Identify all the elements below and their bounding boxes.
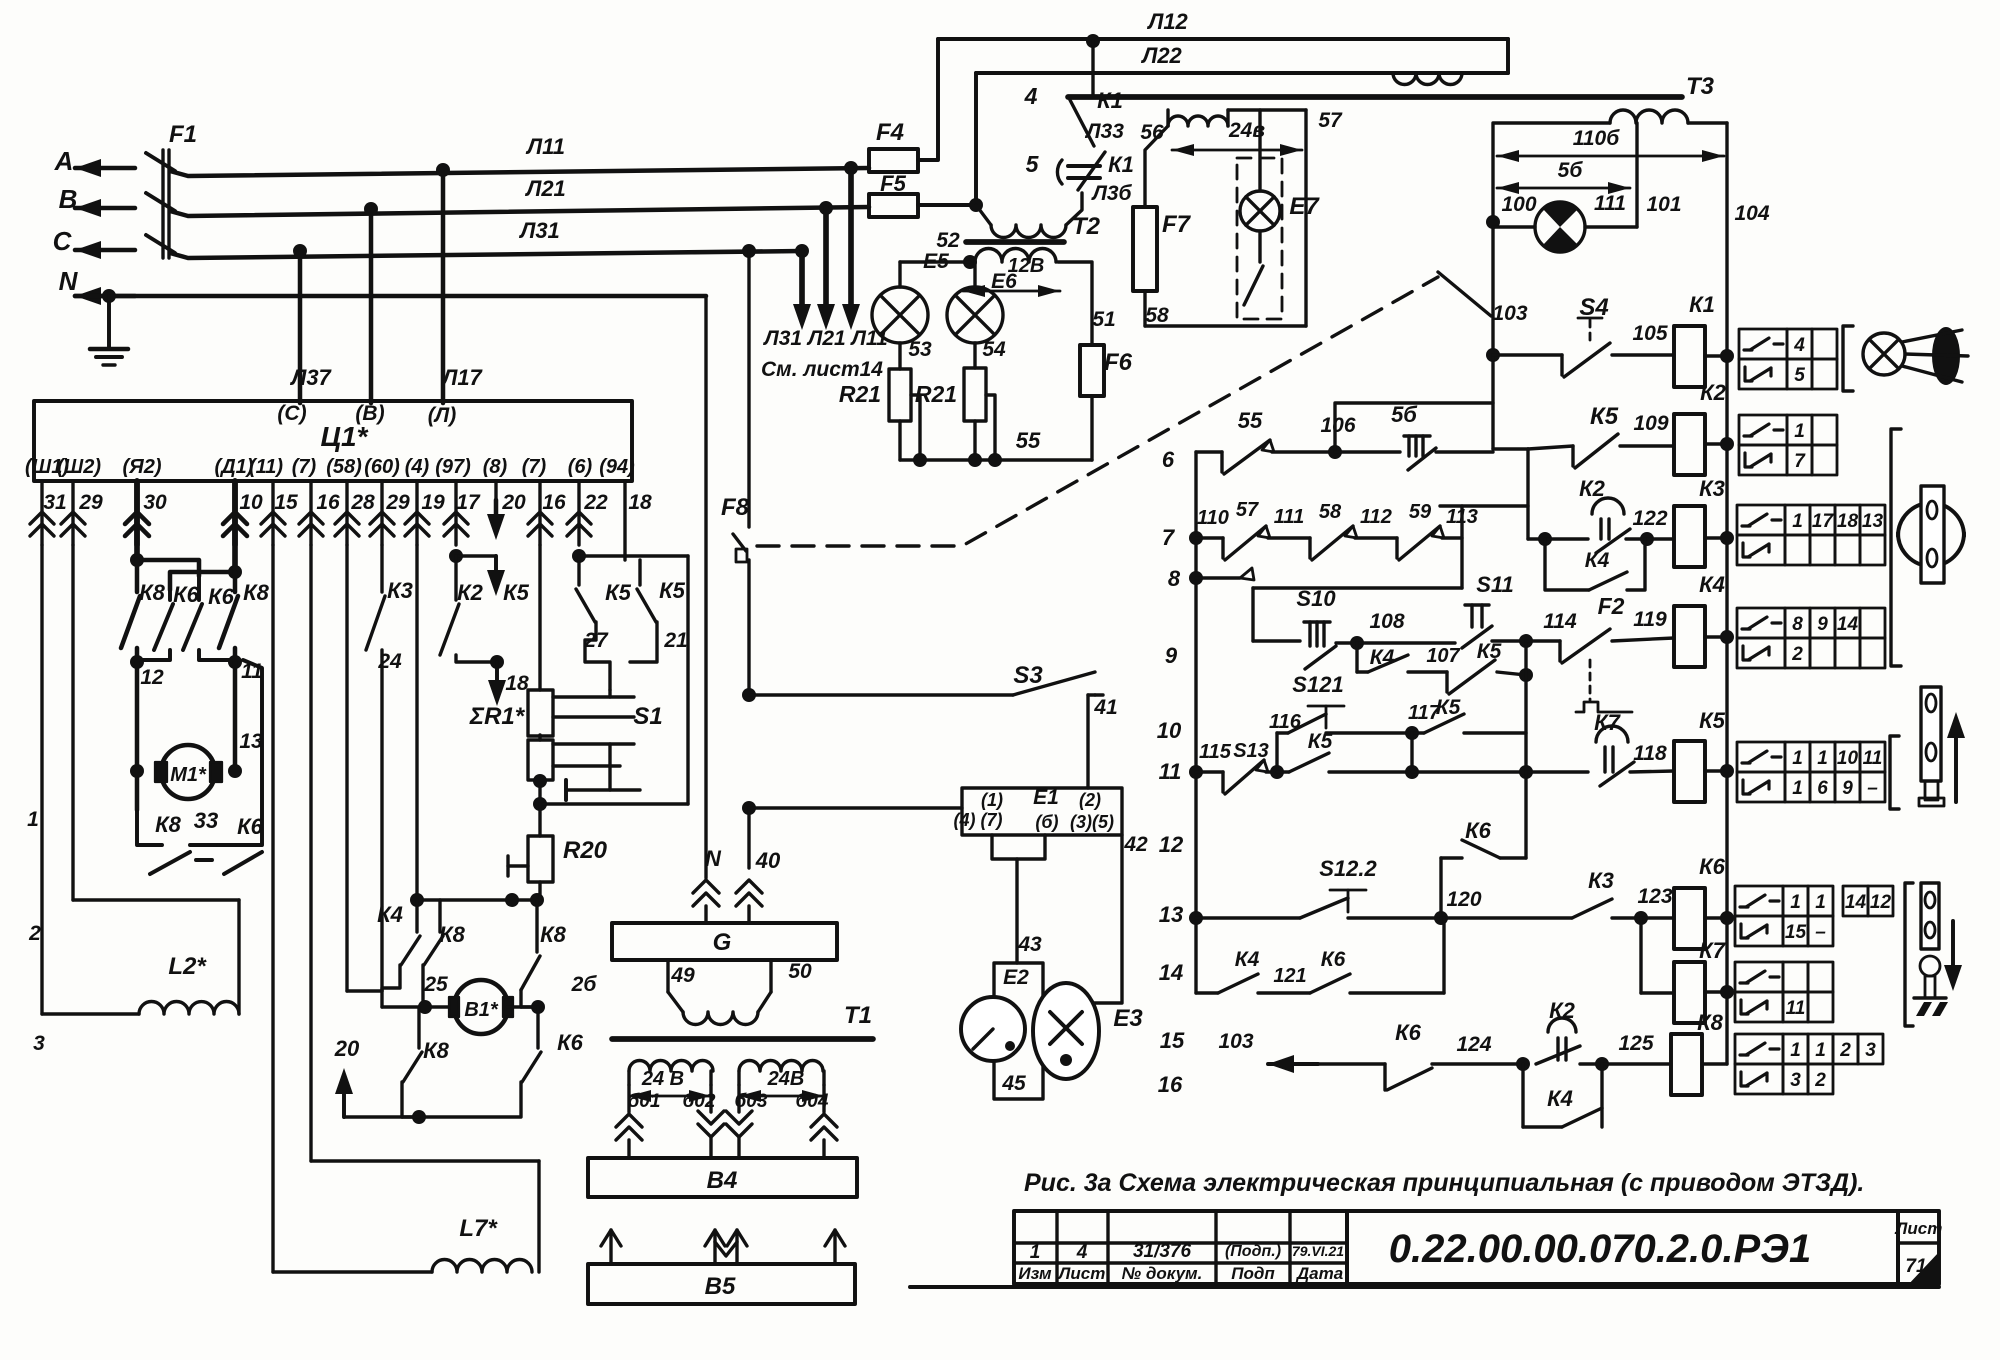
svg-text:53: 53 [908, 338, 932, 361]
wire L31 [170, 251, 802, 258]
svg-text:10: 10 [1157, 718, 1182, 743]
svg-text:1: 1 [1030, 1242, 1041, 1263]
wire F8 vertical from L31 [742, 244, 756, 258]
svg-text:S3: S3 [1013, 662, 1043, 689]
svg-text:105: 105 [1632, 322, 1667, 345]
svg-text:2: 2 [1839, 1040, 1851, 1061]
motor bottom loop with contacts K8 33 K6 [137, 810, 162, 845]
svg-text:М1*: М1* [170, 764, 207, 786]
resistor block SR1* lower [528, 740, 553, 780]
lever icon with up arrow [1921, 687, 1941, 781]
lamp head icon [1920, 956, 1940, 976]
svg-text:16: 16 [1158, 1072, 1183, 1097]
svg-text:8: 8 [1792, 614, 1803, 635]
svg-text:S1: S1 [633, 703, 662, 730]
svg-text:Дата: Дата [1295, 1264, 1343, 1283]
contact table K2 [1739, 415, 1787, 445]
svg-text:21: 21 [663, 629, 687, 652]
T3 secondary 110v winding [1610, 110, 1688, 123]
wire below SR1 [538, 735, 541, 740]
resistor R20 [528, 836, 553, 882]
svg-text:A: A [54, 146, 74, 176]
contact 5b thermal [1404, 434, 1430, 437]
row F2 K4coil [1526, 639, 1560, 642]
fuse F6 [1080, 345, 1104, 396]
node 124 [1516, 1057, 1530, 1071]
svg-text:(С): (С) [277, 402, 306, 425]
svg-text:1: 1 [1792, 778, 1803, 799]
svg-text:К7: К7 [1594, 710, 1622, 735]
svg-text:Л33: Л33 [1084, 120, 1124, 143]
svg-text:(1): (1) [981, 790, 1003, 810]
node 12 [130, 655, 144, 669]
contact K8 motor 1 [135, 560, 140, 592]
svg-text:1: 1 [1815, 1040, 1826, 1061]
contact 59 [1395, 538, 1398, 558]
connector E1 box [962, 788, 1122, 835]
wire 42 from E1 right [1094, 835, 1122, 1003]
contact table K1 [1739, 329, 1787, 359]
svg-text:107: 107 [1426, 645, 1460, 667]
svg-text:7: 7 [1794, 451, 1806, 472]
svg-text:(94): (94) [599, 456, 635, 478]
node row y900 [417, 898, 540, 901]
node 52 [963, 255, 977, 269]
row15 arrow left [1268, 1062, 1318, 1066]
svg-text:Л31: Л31 [518, 218, 560, 243]
svg-text:5б: 5б [1391, 402, 1418, 427]
svg-text:См. лист14: См. лист14 [761, 358, 883, 381]
branch to K5 arrow [456, 554, 496, 557]
svg-text:25: 25 [423, 973, 448, 996]
svg-text:B: B [59, 184, 78, 214]
svg-text:К5: К5 [1308, 730, 1333, 753]
pin wire 29 at x=73 [71, 481, 74, 545]
svg-text:К6: К6 [1321, 948, 1346, 971]
contact table K3 [1737, 505, 1785, 535]
resistor R21 first [898, 343, 901, 369]
contact K5b [623, 557, 626, 560]
pin wire 29 at x=382 [380, 481, 383, 545]
resistor block SR1* upper [528, 690, 553, 736]
relay coil K7 [1674, 962, 1705, 1023]
svg-text:Е7: Е7 [1289, 193, 1320, 220]
svg-text:F2: F2 [1598, 593, 1625, 619]
svg-text:К6: К6 [1699, 854, 1726, 879]
bold arrow L21 to sheet 14 [819, 201, 833, 215]
svg-text:К1: К1 [1108, 152, 1134, 177]
contact K6 below B1 right [536, 1007, 539, 1048]
svg-text:К4: К4 [1235, 948, 1260, 971]
contact K8 right of B1 [535, 900, 538, 952]
ground symbol [107, 296, 111, 349]
wire pin16 down to L7 [309, 545, 312, 1161]
transformer T2 primary [976, 205, 991, 225]
wire to S3 [749, 693, 1013, 696]
contact K3 row13 [1441, 916, 1572, 919]
contact K6 row14 [1310, 974, 1350, 993]
row8 from rail [1189, 571, 1203, 585]
svg-text:15: 15 [1160, 1028, 1185, 1053]
ladder left rail [1194, 452, 1197, 993]
svg-text:К6: К6 [173, 582, 200, 607]
svg-text:К3: К3 [1699, 476, 1725, 501]
wire 41 vertical [1086, 695, 1089, 788]
svg-text:1: 1 [1794, 421, 1805, 442]
svg-text:К5: К5 [659, 578, 686, 603]
power input arrow phase C [75, 248, 135, 253]
svg-text:К6: К6 [208, 584, 235, 609]
svg-text:1: 1 [1790, 1040, 1801, 1061]
branch 123 down to K7 coil [1639, 918, 1642, 993]
contact F2 [1558, 641, 1561, 661]
svg-text:(2): (2) [1079, 790, 1101, 810]
lamp E7 dashed box [1237, 158, 1282, 319]
exciter B1* [382, 1005, 455, 1008]
svg-text:3: 3 [33, 1032, 45, 1055]
coil K6 to bus [1705, 916, 1727, 919]
title block table [1014, 1211, 1347, 1284]
svg-text:К3: К3 [387, 578, 413, 603]
svg-text:13: 13 [239, 730, 263, 753]
svg-text:S11: S11 [1476, 572, 1514, 597]
bracket K1 lamp [1843, 326, 1853, 391]
svg-text:11: 11 [1863, 748, 1883, 769]
svg-text:12: 12 [1870, 892, 1892, 913]
svg-text:112: 112 [1360, 506, 1392, 528]
svg-text:13: 13 [1862, 511, 1884, 532]
lamp E6 [973, 262, 976, 287]
wire 103 down [1491, 355, 1494, 449]
svg-text:L7*: L7* [459, 1215, 498, 1242]
svg-text:К2: К2 [1549, 998, 1576, 1023]
branch down from row6 node [1440, 449, 1528, 506]
svg-text:58: 58 [1145, 304, 1169, 327]
row7 right vertical [1460, 506, 1463, 588]
wire L17 drop to C1 (L) [441, 170, 446, 403]
svg-text:20: 20 [334, 1036, 360, 1061]
wire pin28 down [345, 545, 348, 991]
svg-text:114: 114 [1543, 610, 1577, 633]
svg-text:(б): (б) [1035, 812, 1058, 832]
contact table K4 [1737, 608, 1785, 638]
dim 24v [1172, 149, 1302, 152]
node on L21 at B drop [364, 202, 378, 216]
relay coil K5 [1674, 741, 1705, 802]
connector block C1* [34, 401, 632, 481]
contact table K7 [1735, 962, 1783, 992]
pin wire 16 at x=311 [309, 481, 312, 545]
svg-text:N: N [59, 266, 79, 296]
svg-text:3: 3 [1790, 1070, 1801, 1091]
svg-text:(Ш2): (Ш2) [57, 456, 101, 478]
svg-text:18: 18 [505, 672, 529, 695]
row12 contact K6 [1524, 772, 1527, 858]
svg-text:22: 22 [583, 491, 608, 514]
contact 57 [1221, 538, 1224, 558]
svg-text:12: 12 [1159, 832, 1184, 857]
contact S11 [1357, 641, 1455, 644]
svg-text:101: 101 [1646, 193, 1681, 216]
svg-text:F4: F4 [876, 119, 904, 146]
svg-text:К1: К1 [1689, 292, 1715, 317]
svg-text:119: 119 [1633, 608, 1667, 631]
dim 24V right [739, 1095, 824, 1098]
pin wire 10 at x=235 [232, 481, 238, 545]
SR1 taps [553, 695, 634, 698]
svg-text:9: 9 [1817, 614, 1828, 635]
svg-text:Т1: Т1 [844, 1002, 872, 1029]
svg-text:2: 2 [1791, 644, 1803, 665]
bracket K5 [1890, 736, 1899, 809]
svg-text:1: 1 [1815, 892, 1826, 913]
svg-text:L2*: L2* [168, 953, 207, 980]
svg-text:S12.2: S12.2 [1319, 856, 1377, 881]
svg-text:F7: F7 [1162, 211, 1192, 238]
svg-text:4: 4 [1076, 1242, 1088, 1263]
node on L11 at L drop [436, 163, 450, 177]
svg-text:(7): (7) [292, 456, 317, 478]
node 17 top [449, 549, 463, 563]
row14 to node120 [1442, 918, 1445, 993]
svg-text:115: 115 [1199, 741, 1232, 763]
svg-text:К4: К4 [1585, 549, 1610, 572]
E1 bottom U link [992, 835, 1045, 859]
siren E3 [1033, 983, 1099, 1079]
node 106 [1328, 445, 1342, 459]
svg-text:15: 15 [274, 491, 298, 514]
svg-text:11: 11 [1159, 759, 1182, 784]
svg-text:S121: S121 [1292, 672, 1343, 697]
svg-text:4: 4 [1793, 335, 1805, 356]
svg-text:121: 121 [1273, 965, 1306, 987]
node 11 [228, 655, 242, 669]
svg-text:29: 29 [385, 491, 410, 514]
svg-text:№ докум.: № докум. [1122, 1264, 1203, 1283]
svg-text:52: 52 [936, 229, 960, 252]
wire 110v left [1493, 123, 1610, 355]
inductor L2* [42, 1012, 139, 1015]
wire L37 drop to C1 (C) [298, 251, 303, 403]
contact 103 [1438, 272, 1491, 316]
resistor R21 second [973, 343, 976, 368]
gauge circle [961, 997, 1025, 1061]
svg-text:К5: К5 [1590, 403, 1619, 430]
switch fuse F8 [733, 534, 746, 551]
transformer T2 secondary [975, 249, 1056, 263]
wire B1 right [507, 1005, 538, 1008]
svg-text:Е1: Е1 [1033, 786, 1059, 809]
svg-text:Е5: Е5 [923, 250, 949, 273]
svg-text:51: 51 [1092, 308, 1115, 331]
svg-text:(4): (4) [405, 456, 430, 478]
rectifier B4 box [588, 1158, 857, 1197]
node below 114 [1519, 668, 1533, 682]
lamp E7 [1258, 110, 1261, 191]
hatched base [1914, 996, 1946, 999]
arrows B5 to B4 [609, 1230, 612, 1262]
svg-text:10: 10 [1837, 748, 1859, 769]
row6 contact 55 [1196, 450, 1222, 453]
R21 taps and bottom wire 55 [911, 395, 920, 460]
L12-L22 right junction [1506, 39, 1510, 73]
wire L11 [170, 168, 869, 176]
svg-text:1: 1 [27, 808, 39, 831]
contact K4 branch [415, 900, 418, 932]
svg-text:Рис. 3а Схема электрическ: Рис. 3а Схема электрическая принципиальн… [1024, 1169, 1864, 1197]
svg-text:Лист: Лист [1057, 1264, 1106, 1283]
svg-text:Т3: Т3 [1686, 73, 1715, 100]
svg-text:5: 5 [1026, 151, 1040, 177]
svg-text:Л12: Л12 [1146, 9, 1188, 34]
svg-text:7: 7 [1162, 525, 1176, 550]
wire 110v right to bus [1688, 121, 1727, 124]
svg-text:31: 31 [43, 491, 66, 514]
svg-text:(Л): (Л) [428, 404, 456, 427]
relay coil K1 [1674, 326, 1705, 387]
pin wire 20 at x=496 [494, 481, 497, 500]
node 125 [1595, 1057, 1609, 1071]
dim 110b [1497, 155, 1724, 158]
coil K3 to bus [1705, 536, 1727, 539]
svg-text:124: 124 [1456, 1033, 1491, 1056]
node 117 [1405, 726, 1419, 740]
coil K1 to bus [1705, 354, 1727, 357]
svg-text:(Подп.): (Подп.) [1225, 1243, 1281, 1260]
battery bar S1 [564, 780, 568, 800]
right main bus [1725, 123, 1728, 1064]
power input arrow neutral N [75, 294, 135, 299]
svg-text:27: 27 [583, 629, 609, 652]
rectifier B5 box [588, 1264, 855, 1304]
svg-text:Изм: Изм [1018, 1264, 1052, 1283]
pin wire 18 at x=625 [623, 481, 626, 557]
wire 57 down [1304, 110, 1307, 326]
svg-text:109: 109 [1633, 412, 1668, 435]
svg-text:104: 104 [1734, 202, 1769, 225]
T3 secondary 24v winding [1168, 116, 1228, 126]
svg-text:14: 14 [1159, 960, 1183, 985]
svg-text:55: 55 [1016, 428, 1041, 453]
svg-text:–: – [1867, 778, 1878, 799]
dashed trip line from F8 [757, 277, 1438, 546]
svg-text:(58): (58) [326, 456, 362, 478]
fuse F4 [869, 149, 918, 172]
wire 56 bottom [1143, 291, 1146, 326]
svg-text:К6: К6 [1395, 1020, 1422, 1045]
S1 lever wire [608, 744, 611, 790]
svg-text:4: 4 [1024, 83, 1038, 109]
bracket group K6-K8 [1905, 883, 1913, 1026]
svg-text:Л37: Л37 [289, 365, 332, 390]
svg-text:К6: К6 [237, 814, 264, 839]
contact K3 on wire 29-60 [380, 545, 383, 592]
contact K1 top [1086, 34, 1100, 48]
node 18 arrow [490, 655, 504, 669]
svg-text:(Д1): (Д1) [215, 456, 254, 478]
T1 secondary right [739, 1061, 823, 1072]
svg-text:30: 30 [143, 491, 167, 514]
svg-text:5б: 5б [1558, 159, 1584, 182]
down arrow icon [1951, 921, 1955, 971]
transformer T3 core [1068, 94, 1682, 100]
svg-text:ΣR1*: ΣR1* [469, 703, 526, 730]
svg-text:43: 43 [1017, 933, 1042, 956]
contact K5a [577, 556, 580, 585]
dim 24V left [629, 1095, 711, 1098]
wire pin31 down to L2 [40, 545, 43, 1014]
svg-text:1: 1 [1792, 511, 1803, 532]
signal lamp 100-111 [1486, 215, 1500, 229]
wire pin15 down to L7 [271, 545, 274, 1272]
svg-text:К6: К6 [1465, 818, 1492, 843]
wire L22 [976, 71, 1508, 75]
svg-text:К5: К5 [1699, 708, 1726, 733]
row10 drop to row11 [1275, 733, 1278, 772]
svg-text:3: 3 [1865, 1040, 1876, 1061]
contact K4 under 108 [1355, 643, 1358, 672]
svg-text:24: 24 [377, 650, 402, 673]
wire N [75, 294, 706, 299]
bracket group K2-K4 [1891, 429, 1901, 666]
contact K4 bypass row15 [1521, 1064, 1524, 1127]
svg-text:К8: К8 [243, 580, 270, 605]
T3 primary coil on L22 [1393, 73, 1462, 85]
pin wire 22 at x=579 [577, 481, 580, 545]
svg-text:20: 20 [501, 491, 526, 514]
svg-text:К8: К8 [439, 922, 466, 947]
contact K4 row14 [1218, 974, 1258, 993]
contact K2 push row15 [1548, 1018, 1576, 1032]
wire F5 to T2 and up to L22 [918, 203, 976, 207]
pin wire 19 at x=417 [415, 481, 418, 545]
wire R20 top [538, 804, 541, 836]
svg-text:F8: F8 [721, 494, 750, 521]
svg-text:Л21: Л21 [524, 176, 566, 201]
coil K8 to bus [1702, 1062, 1727, 1065]
svg-text:R21: R21 [839, 381, 881, 407]
wire pin10 down [232, 481, 238, 572]
svg-text:120: 120 [1446, 888, 1481, 911]
contact table K5 [1737, 742, 1785, 772]
svg-text:18: 18 [628, 491, 652, 514]
svg-text:24В: 24В [767, 1068, 805, 1090]
svg-text:К1: К1 [1097, 88, 1123, 113]
svg-text:29: 29 [78, 491, 103, 514]
S10 block top wire [1253, 586, 1462, 589]
power input arrow phase A [75, 166, 135, 171]
node on N [102, 289, 116, 303]
row6 to K5 109 coil K2 [1493, 447, 1528, 450]
svg-text:2б: 2б [571, 973, 598, 996]
svg-text:54: 54 [982, 338, 1006, 361]
node 114 [1519, 634, 1533, 648]
wire F8 to G [747, 808, 750, 868]
svg-text:17: 17 [1812, 511, 1835, 532]
svg-text:108: 108 [1369, 610, 1404, 633]
T1 secondary left [629, 1061, 713, 1072]
svg-text:40: 40 [755, 848, 781, 873]
svg-text:57: 57 [1318, 109, 1343, 132]
svg-text:R20: R20 [563, 837, 608, 864]
indicator lamp with reflector [1863, 333, 1905, 375]
svg-text:33: 33 [194, 808, 218, 833]
svg-text:К5: К5 [503, 580, 530, 605]
dim 12V [963, 290, 1060, 293]
contact K8 below B1 [417, 1007, 420, 1048]
relay coil K8 [1671, 1034, 1702, 1095]
svg-text:6: 6 [1817, 778, 1828, 799]
